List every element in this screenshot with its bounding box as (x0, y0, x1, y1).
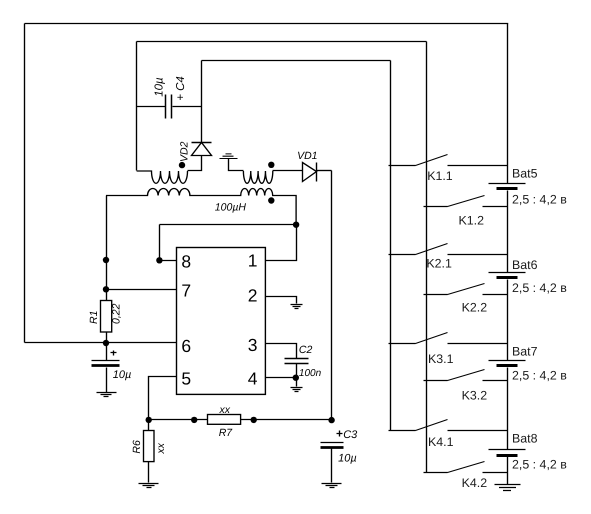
capacitor C3 plus sign (337, 431, 343, 437)
capacitor C2 plates (285, 359, 309, 364)
wire pin 5 (149, 377, 177, 420)
wire VD2 to relays top line (202, 60, 391, 62)
wire inner loop top (C4/K*.2 line) (137, 41, 427, 43)
svg-text:+ C4: + C4 (175, 76, 187, 101)
svg-text:xx: xx (219, 404, 231, 416)
svg-text:K3.2: K3.2 (462, 388, 488, 402)
svg-text:Bat5: Bat5 (512, 167, 538, 181)
diode VD1 cathode bar (316, 163, 318, 182)
wire bottom bus left (149, 419, 208, 421)
ground pin 2 (291, 305, 303, 309)
svg-text:2,5 : 4,2 в: 2,5 : 4,2 в (512, 193, 567, 207)
contact K4.1 (389, 420, 508, 431)
svg-text:100µH: 100µH (215, 202, 247, 214)
svg-text:6: 6 (181, 336, 191, 356)
wire R1 bottom (106, 332, 108, 361)
inductor 100µH primary winding (106, 188, 296, 224)
svg-text:5: 5 (181, 368, 191, 388)
polarity dot primary (268, 197, 274, 203)
node pin 8 (156, 257, 162, 263)
node pin 6 (103, 340, 109, 346)
transformer secondary right winding (243, 171, 272, 183)
svg-text:VD1: VD1 (297, 150, 317, 162)
svg-text:C3: C3 (343, 429, 358, 441)
wire C3 bottom (331, 449, 333, 483)
wire C4 left lead (137, 106, 166, 108)
wire K contacts .2 vertical (426, 42, 428, 473)
wire C2 bottom to pin 4 (296, 364, 298, 378)
node pin 7 / R1 top (103, 286, 109, 292)
svg-text:3: 3 (248, 335, 258, 355)
svg-text:0,22: 0,22 (111, 303, 123, 324)
wire outer frame left (24, 24, 26, 343)
resistor R1 (101, 301, 112, 333)
op-amp U1 body (177, 248, 266, 395)
svg-text:2: 2 (248, 285, 258, 305)
contact K2.1 (389, 244, 508, 255)
wire K contacts .1 vertical (390, 61, 392, 431)
wire bottom bus right (241, 419, 332, 421)
svg-text:R6: R6 (131, 440, 143, 454)
svg-text:7: 7 (181, 280, 191, 300)
svg-text:K1.2: K1.2 (459, 213, 485, 227)
svg-text:xx: xx (155, 442, 167, 454)
svg-text:2,5 : 4,2 в: 2,5 : 4,2 в (512, 281, 567, 295)
contact K3.2 (424, 370, 508, 381)
diode VD2 cathode bar (192, 142, 212, 144)
wire C1 bottom (106, 368, 108, 393)
wire pin 1 (266, 225, 297, 261)
contact K4.2 (424, 462, 508, 473)
svg-text:10µ: 10µ (154, 77, 166, 97)
polarity dot secondary right (268, 162, 274, 168)
node bus R6 (146, 417, 152, 423)
node bus C3 (328, 417, 334, 423)
svg-text:1: 1 (248, 251, 258, 271)
svg-text:K4.1: K4.1 (428, 435, 454, 449)
svg-text:2,5 : 4,2 в: 2,5 : 4,2 в (512, 458, 567, 472)
svg-text:Bat8: Bat8 (512, 431, 538, 445)
contact K2.2 (424, 284, 508, 295)
capacitor C3 plates (321, 442, 344, 444)
polarity dot secondary left (179, 162, 185, 168)
capacitor C1 plates (92, 360, 120, 362)
svg-text:8: 8 (181, 252, 191, 272)
diode VD1 triangle (303, 163, 317, 182)
transformer secondary left winding (137, 171, 188, 183)
battery Bat6 (489, 273, 526, 278)
capacitor C1 plus sign (111, 351, 117, 356)
ground battery chain (495, 485, 521, 491)
ground pin 4 (291, 388, 303, 392)
svg-text:100n: 100n (299, 368, 322, 379)
resistor R7 (208, 415, 241, 425)
contact K3.1 (389, 333, 508, 344)
ground R6 (139, 484, 159, 488)
diode VD2 cathode wire (201, 61, 203, 143)
node bus right of R7 (251, 417, 257, 423)
wire pin 6 feed from frame (25, 342, 177, 344)
svg-text:C2: C2 (299, 344, 313, 356)
ground C1 (97, 393, 117, 397)
battery Bat8 (489, 450, 526, 456)
wire to ground pin4 (296, 378, 298, 387)
svg-text:Bat6: Bat6 (512, 258, 538, 272)
wire C4 left vertical (136, 42, 138, 171)
svg-text:Bat7: Bat7 (512, 344, 538, 358)
svg-text:K2.2: K2.2 (462, 301, 488, 315)
svg-text:K3.1: K3.1 (428, 352, 454, 366)
node junction winding/pin1 (293, 222, 299, 228)
svg-text:K4.2: K4.2 (462, 476, 488, 490)
wire pin 7 (107, 289, 177, 291)
battery Bat5 (489, 184, 526, 189)
svg-text:K2.1: K2.1 (426, 257, 452, 271)
svg-text:4: 4 (248, 368, 258, 388)
ground C3 (322, 484, 342, 488)
diode VD2 anode wire (188, 156, 202, 171)
wire outer frame top (25, 23, 509, 25)
wire VD1 out (317, 170, 332, 172)
wire pin 3 (266, 344, 297, 359)
svg-text:10µ: 10µ (113, 369, 132, 381)
svg-text:K1.1: K1.1 (427, 169, 453, 183)
contact K1.2 (424, 196, 508, 207)
wire R6 bottom (148, 462, 150, 483)
diode VD2 triangle (192, 143, 212, 156)
node rail dot (103, 257, 109, 263)
inverted ground at secondary right winding (220, 154, 244, 171)
wire pin 4 (266, 377, 297, 379)
resistor R6 (144, 431, 155, 462)
wire pin 2 (266, 297, 297, 304)
svg-text:R7: R7 (219, 427, 234, 439)
wire left rail x=106 (106, 196, 108, 301)
wire link pin8/pin1 (160, 225, 297, 261)
svg-text:2,5 : 4,2 в: 2,5 : 4,2 в (512, 369, 567, 383)
wire VD1 down to C3 bus (331, 171, 333, 421)
svg-text:VD2: VD2 (179, 141, 191, 162)
capacitor C4 plates (166, 95, 172, 119)
node bus left of R7 (191, 417, 197, 423)
battery Bat7 (489, 361, 526, 366)
svg-text:R1: R1 (88, 311, 100, 324)
battery chain vertical segments (507, 24, 509, 485)
contact K1.1 (389, 155, 508, 166)
wire winding to VD1 (273, 170, 303, 172)
node pin 4 / C2 (293, 375, 299, 381)
svg-text:10µ: 10µ (338, 453, 357, 465)
wire R6 top (148, 420, 150, 431)
wire C4 right lead (173, 106, 202, 108)
